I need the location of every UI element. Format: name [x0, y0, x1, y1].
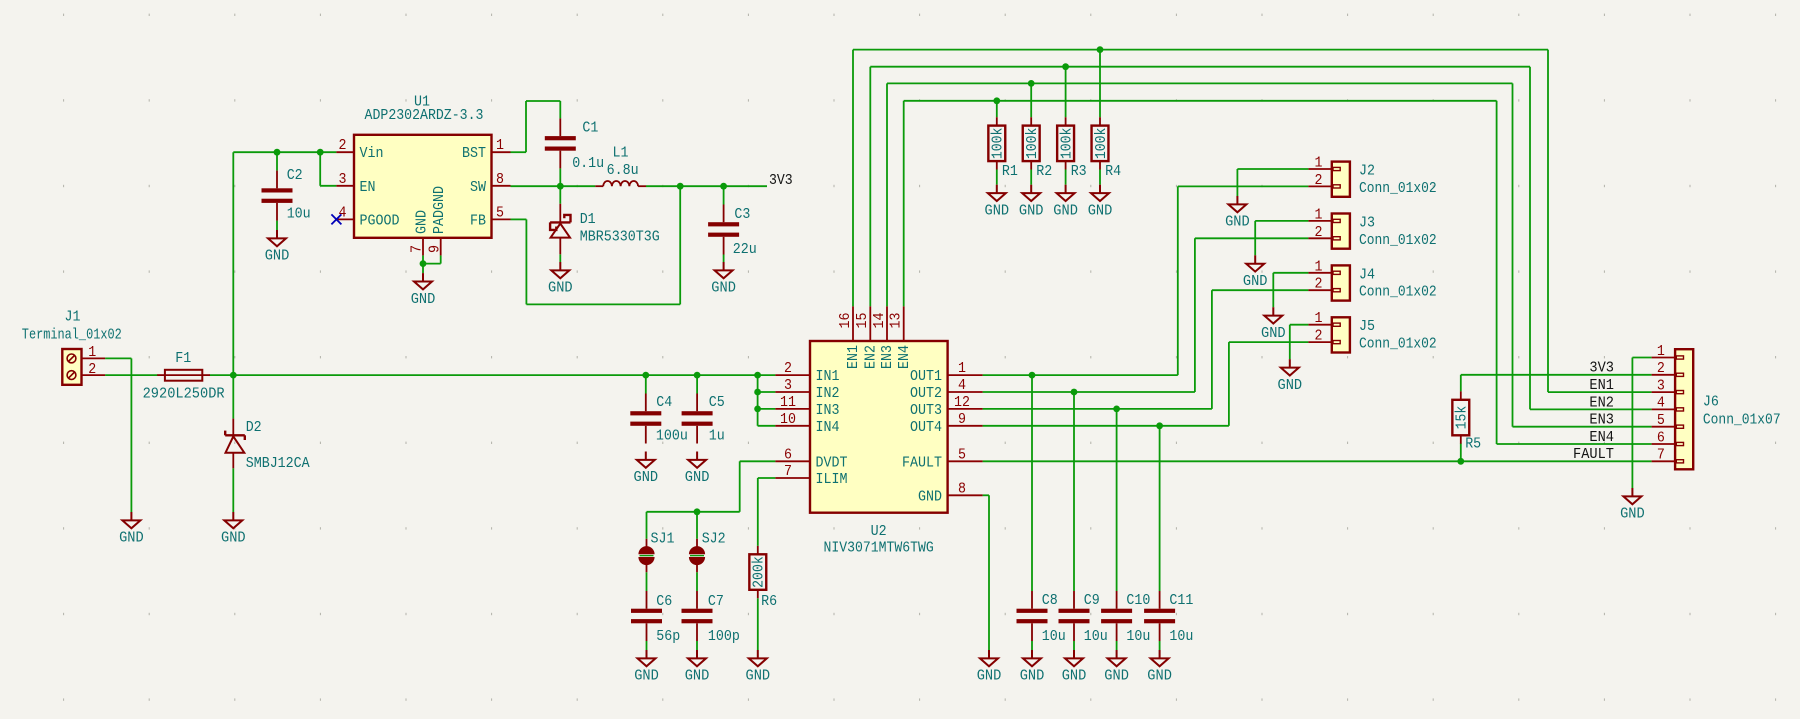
ground (C11)	[1151, 650, 1169, 666]
svg-text:4: 4	[1657, 395, 1665, 412]
svg-text:F1: F1	[175, 350, 191, 367]
wire	[1229, 341, 1309, 343]
svg-text:100p: 100p	[708, 628, 740, 645]
svg-text:NIV3071MTW6TWG: NIV3071MTW6TWG	[823, 539, 933, 556]
connector J2 Conn_01x02	[1308, 162, 1350, 197]
junction	[754, 389, 761, 396]
junction	[1071, 389, 1078, 396]
diode D2 SMBJ12CA (TVS)	[225, 419, 245, 469]
diode D1 MBR5330T3G	[550, 204, 570, 255]
svg-text:13: 13	[888, 313, 905, 329]
svg-text:GND: GND	[985, 202, 1010, 219]
svg-text:5: 5	[958, 446, 966, 463]
junction	[1028, 80, 1035, 87]
wire	[1529, 67, 1531, 410]
wire	[1530, 408, 1652, 410]
svg-text:2: 2	[784, 360, 792, 377]
svg-text:GND: GND	[634, 668, 659, 685]
ground (C6)	[638, 650, 656, 666]
svg-text:BST: BST	[462, 145, 486, 162]
ground (C9)	[1065, 650, 1083, 666]
svg-text:15: 15	[854, 313, 871, 329]
ground	[1281, 359, 1299, 375]
capacitor C11	[1144, 591, 1175, 641]
svg-text:OUT2: OUT2	[910, 385, 942, 402]
wire	[1513, 426, 1652, 428]
wire	[1460, 375, 1462, 392]
svg-text:DVDT: DVDT	[816, 454, 848, 471]
wire	[1030, 83, 1032, 117]
wire	[696, 512, 698, 539]
svg-text:OUT4: OUT4	[910, 419, 942, 436]
capacitor C5	[682, 394, 713, 444]
svg-text:C3: C3	[734, 206, 750, 223]
ground (R6)	[749, 650, 767, 666]
wire	[1065, 67, 1067, 118]
svg-text:11: 11	[780, 394, 796, 411]
svg-text:2: 2	[339, 137, 347, 154]
svg-text:SJ1: SJ1	[651, 531, 675, 548]
wire	[1273, 272, 1308, 274]
svg-text:56p: 56p	[656, 628, 680, 645]
ground	[1246, 255, 1264, 271]
wire	[903, 101, 905, 307]
wire	[1237, 168, 1308, 170]
svg-text:EN3: EN3	[879, 345, 896, 369]
wire	[1099, 50, 1101, 118]
svg-text:R4: R4	[1105, 163, 1121, 180]
ground (J1)	[122, 512, 140, 528]
svg-text:C4: C4	[656, 394, 672, 411]
wire	[696, 572, 698, 591]
svg-text:1: 1	[496, 137, 504, 154]
svg-text:GND: GND	[1053, 202, 1078, 219]
solder jumper SJ1	[638, 539, 654, 572]
wire	[1497, 443, 1652, 445]
ground (R3)	[1057, 185, 1075, 201]
svg-text:PGOOD: PGOOD	[360, 212, 400, 229]
svg-text:8: 8	[496, 171, 504, 188]
svg-text:1: 1	[1657, 343, 1665, 360]
svg-text:FB: FB	[470, 212, 486, 229]
svg-text:J4: J4	[1359, 266, 1375, 283]
svg-text:GND: GND	[265, 248, 290, 265]
svg-text:100k: 100k	[990, 128, 1007, 160]
capacitor C2	[262, 171, 293, 221]
svg-text:GND: GND	[1019, 202, 1044, 219]
ground (U2)	[980, 650, 998, 666]
svg-text:2920L250DR: 2920L250DR	[143, 386, 225, 403]
junction	[274, 149, 281, 156]
wire	[320, 185, 336, 187]
svg-text:GND: GND	[548, 280, 573, 297]
connector J4 Conn_01x02	[1308, 265, 1350, 300]
svg-text:6.8u: 6.8u	[607, 162, 639, 179]
wire	[646, 641, 648, 650]
wire	[1099, 170, 1101, 185]
resistor R5 15k	[1452, 391, 1469, 443]
svg-text:GND: GND	[1088, 202, 1113, 219]
svg-text:C8: C8	[1042, 592, 1058, 609]
svg-text:L1: L1	[613, 145, 629, 162]
junction	[1457, 458, 1464, 465]
svg-text:2: 2	[1657, 360, 1665, 377]
svg-text:16: 16	[837, 313, 854, 329]
wire	[1547, 50, 1549, 393]
wire	[105, 357, 131, 359]
wire	[1031, 375, 1033, 591]
svg-text:10u: 10u	[1042, 628, 1066, 645]
svg-text:1u: 1u	[709, 428, 725, 445]
capacitor C10	[1101, 591, 1132, 641]
wire	[1211, 290, 1213, 409]
wire	[647, 511, 740, 513]
svg-text:100k: 100k	[1058, 128, 1075, 160]
svg-text:J2: J2	[1359, 163, 1375, 180]
svg-text:C6: C6	[656, 593, 672, 610]
svg-text:100k: 100k	[1024, 128, 1041, 160]
svg-text:MBR5330T3G: MBR5330T3G	[580, 228, 660, 245]
capacitor C9	[1059, 591, 1090, 641]
svg-text:GND: GND	[1261, 325, 1286, 342]
svg-text:Conn_01x07: Conn_01x07	[1703, 411, 1781, 428]
wire	[1195, 237, 1309, 239]
svg-text:IN2: IN2	[816, 385, 840, 402]
wire	[758, 391, 776, 393]
svg-text:10u: 10u	[1169, 628, 1193, 645]
wire	[758, 408, 776, 410]
svg-text:1: 1	[1315, 310, 1323, 327]
wire	[723, 255, 725, 263]
svg-text:6: 6	[784, 446, 792, 463]
wire	[559, 101, 561, 118]
ground (C4)	[637, 452, 655, 468]
wire	[232, 152, 234, 375]
svg-text:2: 2	[1315, 172, 1323, 189]
svg-text:Conn_01x02: Conn_01x02	[1359, 284, 1437, 301]
junction	[993, 97, 1000, 104]
svg-text:1: 1	[88, 344, 96, 361]
svg-text:9: 9	[426, 245, 443, 253]
connector J6 Conn_01x07	[1652, 349, 1694, 469]
inductor L1 6.8u	[595, 181, 646, 186]
junction	[694, 508, 701, 515]
svg-text:4: 4	[339, 204, 347, 221]
svg-text:J1: J1	[65, 308, 81, 325]
junction	[317, 149, 324, 156]
wire	[511, 185, 596, 187]
wire	[423, 263, 441, 265]
capacitor C8	[1017, 591, 1048, 641]
svg-text:GND: GND	[1062, 668, 1087, 685]
svg-text:5: 5	[1657, 412, 1665, 429]
ground (C2)	[268, 230, 286, 246]
wire	[1116, 641, 1118, 650]
ground (J6)	[1623, 488, 1641, 504]
svg-text:8: 8	[958, 480, 966, 497]
svg-text:GND: GND	[1020, 668, 1045, 685]
wire	[526, 303, 680, 305]
svg-text:EN1: EN1	[845, 345, 862, 369]
svg-text:10u: 10u	[1126, 628, 1150, 645]
svg-text:100k: 100k	[1093, 128, 1110, 160]
wire	[210, 374, 776, 376]
ground	[1228, 196, 1246, 212]
fuse F1 2920L250DR	[157, 370, 210, 381]
wire	[1512, 83, 1514, 426]
svg-text:GND: GND	[119, 530, 144, 547]
capacitor C3	[708, 205, 739, 255]
wire	[983, 391, 1195, 393]
svg-text:2: 2	[1315, 276, 1323, 293]
svg-text:EN4: EN4	[1589, 429, 1614, 446]
wire	[1031, 641, 1033, 650]
svg-text:4: 4	[958, 377, 966, 394]
resistor R2 100k	[1023, 117, 1040, 169]
svg-text:Terminal_01x02: Terminal_01x02	[22, 326, 122, 343]
svg-text:ADP2302ARDZ-3.3: ADP2302ARDZ-3.3	[365, 107, 484, 124]
svg-text:C1: C1	[582, 120, 598, 137]
svg-text:3: 3	[784, 377, 792, 394]
svg-text:R2: R2	[1036, 163, 1052, 180]
svg-text:GND: GND	[1620, 506, 1645, 523]
wire	[1496, 101, 1498, 444]
junction	[1113, 406, 1120, 413]
svg-text:0.1u: 0.1u	[572, 155, 604, 172]
wire	[696, 641, 698, 650]
wire	[646, 512, 648, 539]
svg-text:R3: R3	[1071, 163, 1087, 180]
svg-text:GND: GND	[977, 668, 1002, 685]
svg-text:D2: D2	[246, 419, 262, 436]
svg-text:C10: C10	[1126, 592, 1150, 609]
wire	[723, 186, 725, 204]
ground (C8)	[1023, 650, 1041, 666]
wire	[869, 67, 871, 307]
svg-text:3: 3	[1657, 377, 1665, 394]
wire	[1178, 185, 1309, 187]
svg-text:7: 7	[784, 463, 792, 480]
resistor R3 100k	[1057, 117, 1074, 169]
wire	[757, 375, 759, 426]
svg-text:2: 2	[1315, 328, 1323, 345]
wire	[1073, 392, 1075, 591]
svg-text:6: 6	[1657, 429, 1665, 446]
svg-text:10: 10	[780, 411, 796, 428]
ground	[1264, 307, 1282, 323]
wire	[996, 170, 998, 185]
wire	[758, 477, 776, 479]
capacitor C7	[682, 591, 713, 641]
svg-text:7: 7	[1657, 447, 1665, 464]
junction	[230, 372, 237, 379]
wire	[1236, 169, 1238, 196]
wire	[276, 152, 278, 170]
wire	[1212, 289, 1309, 291]
wire	[904, 100, 1497, 102]
wire	[232, 468, 234, 512]
svg-text:PADGND: PADGND	[431, 186, 448, 234]
svg-text:IN1: IN1	[816, 368, 840, 385]
svg-text:EN2: EN2	[863, 345, 880, 369]
wire	[645, 375, 647, 393]
svg-text:GND: GND	[1225, 214, 1250, 231]
wire	[276, 221, 278, 230]
wire	[233, 151, 336, 153]
wire	[1254, 221, 1256, 255]
svg-text:J5: J5	[1359, 318, 1375, 335]
no-connect X on U1 PGOOD	[331, 214, 341, 224]
svg-text:14: 14	[871, 313, 888, 329]
wire	[758, 425, 776, 427]
svg-text:1: 1	[1315, 206, 1323, 223]
svg-text:22u: 22u	[733, 241, 757, 258]
svg-text:C11: C11	[1169, 592, 1193, 609]
junction	[720, 183, 727, 190]
svg-text:OUT3: OUT3	[910, 402, 942, 419]
wire	[526, 100, 560, 102]
svg-text:Conn_01x02: Conn_01x02	[1359, 232, 1437, 249]
wire	[105, 374, 158, 376]
wire	[886, 83, 888, 306]
wire	[559, 254, 561, 262]
junction	[1097, 46, 1104, 53]
svg-text:GND: GND	[413, 210, 430, 234]
svg-text:3V3: 3V3	[769, 172, 793, 189]
ground (U1)	[414, 273, 432, 289]
ground (C7)	[688, 650, 706, 666]
junction	[557, 183, 564, 190]
svg-text:9: 9	[958, 411, 966, 428]
wire	[852, 50, 854, 307]
svg-text:GND: GND	[1278, 377, 1303, 394]
connector J3 Conn_01x02	[1308, 214, 1350, 249]
wire	[1290, 324, 1309, 326]
junction	[642, 372, 649, 379]
solder jumper SJ2	[689, 539, 705, 572]
svg-text:R6: R6	[761, 593, 777, 610]
capacitor C6	[631, 591, 662, 641]
svg-text:J3: J3	[1359, 214, 1375, 231]
junction	[677, 183, 684, 190]
wire	[1631, 358, 1633, 489]
wire	[853, 49, 1548, 51]
ground (C10)	[1108, 650, 1126, 666]
svg-text:GND: GND	[711, 280, 736, 297]
svg-text:GND: GND	[1243, 273, 1268, 290]
svg-text:GND: GND	[918, 488, 942, 505]
wire	[559, 186, 561, 204]
svg-text:GND: GND	[746, 668, 771, 685]
wire	[757, 478, 759, 546]
wire	[757, 598, 759, 650]
capacitor C1	[545, 118, 576, 168]
svg-text:C7: C7	[708, 593, 724, 610]
svg-text:EN2: EN2	[1589, 394, 1614, 411]
resistor R4 100k	[1092, 117, 1109, 169]
svg-text:Conn_01x02: Conn_01x02	[1359, 180, 1437, 197]
svg-text:1: 1	[1315, 155, 1323, 172]
connector J5 Conn_01x02	[1308, 317, 1350, 352]
IC U1 ADP2302ARDZ-3.3	[336, 135, 510, 256]
wire	[525, 101, 527, 152]
wire	[1632, 357, 1651, 359]
svg-text:IN3: IN3	[816, 402, 840, 419]
svg-text:ILIM: ILIM	[816, 471, 848, 488]
svg-text:Conn_01x02: Conn_01x02	[1359, 336, 1437, 353]
junction	[694, 372, 701, 379]
svg-text:GND: GND	[411, 291, 436, 308]
wire	[1073, 641, 1075, 650]
svg-text:GND: GND	[1104, 668, 1129, 685]
svg-text:GND: GND	[685, 469, 710, 486]
wire	[1065, 170, 1067, 185]
svg-text:GND: GND	[634, 469, 659, 486]
wire	[1228, 342, 1230, 426]
svg-text:3V3: 3V3	[1589, 360, 1614, 377]
svg-text:7: 7	[409, 245, 426, 253]
wire	[232, 375, 234, 419]
wire	[740, 460, 776, 462]
svg-text:5: 5	[496, 204, 504, 221]
wire	[679, 186, 681, 304]
wire	[1272, 273, 1274, 307]
wire	[988, 495, 990, 650]
wire	[1116, 409, 1118, 591]
wire	[440, 255, 442, 263]
svg-text:3: 3	[339, 171, 347, 188]
wire	[511, 151, 527, 153]
IC U2 NIV3071MTW6TWG	[775, 306, 982, 512]
junction	[754, 406, 761, 413]
svg-text:GND: GND	[1147, 668, 1172, 685]
svg-text:SW: SW	[470, 179, 486, 196]
wire	[887, 82, 1513, 84]
svg-text:OUT1: OUT1	[910, 368, 942, 385]
ground (D1)	[551, 262, 569, 278]
svg-text:SJ2: SJ2	[702, 531, 726, 548]
wire	[870, 66, 1530, 68]
resistor R1 100k	[988, 117, 1005, 169]
ground (C5)	[688, 452, 706, 468]
wire	[983, 425, 1229, 427]
svg-text:12: 12	[954, 394, 970, 411]
wire	[1194, 238, 1196, 392]
junction	[1156, 422, 1163, 429]
connector J1 Terminal_01x02	[62, 349, 105, 385]
svg-text:C9: C9	[1084, 592, 1100, 609]
wire	[983, 408, 1212, 410]
wire	[646, 185, 767, 187]
wire	[996, 101, 998, 117]
wire	[525, 219, 527, 304]
wire	[1159, 641, 1161, 650]
wire	[1289, 325, 1291, 360]
wire	[319, 152, 321, 186]
svg-text:R1: R1	[1002, 163, 1018, 180]
wire	[1460, 443, 1462, 461]
svg-text:EN: EN	[360, 179, 376, 196]
wire	[1159, 426, 1161, 591]
resistor R6 200k	[749, 546, 766, 598]
ground (C3)	[715, 262, 733, 278]
junction	[420, 260, 427, 267]
wire	[1548, 391, 1652, 393]
svg-text:C5: C5	[709, 394, 725, 411]
ground (D2)	[224, 512, 242, 528]
svg-text:2: 2	[1315, 224, 1323, 241]
junction	[754, 372, 761, 379]
